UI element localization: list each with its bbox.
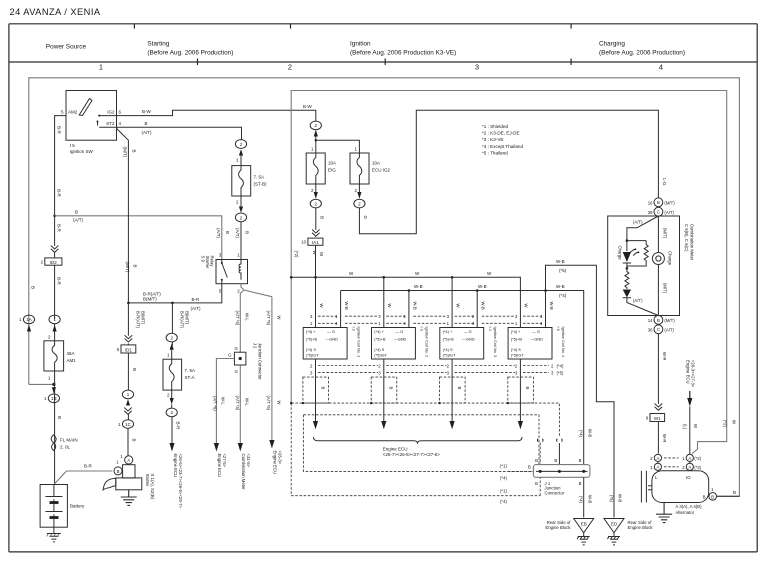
svg-text:Relay: Relay	[210, 256, 215, 268]
svg-text:24 AVANZA / XENIA: 24 AVANZA / XENIA	[10, 7, 101, 17]
svg-text:Alternator: Alternator	[676, 510, 695, 515]
svg-text:L-G: L-G	[662, 178, 667, 186]
svg-text:1A: 1A	[26, 317, 32, 322]
svg-text:(A/T *5): (A/T *5)	[266, 396, 271, 411]
starter relay S 9	[201, 253, 248, 294]
svg-text:W-B: W-B	[478, 284, 487, 289]
svg-text:Ignition SW: Ignition SW	[70, 149, 94, 154]
fuse 10A EIG	[306, 146, 336, 193]
svg-text:I 5: I 5	[70, 143, 76, 148]
svg-text:(*3): (*3)	[694, 465, 701, 470]
svg-text:C: C	[657, 327, 660, 332]
svg-text:AM2: AM2	[68, 109, 78, 114]
svg-text:(*1): (*1)	[500, 463, 507, 468]
combination meter box	[608, 216, 680, 316]
svg-text:B: B	[528, 465, 531, 470]
svg-text:W-B: W-B	[556, 259, 565, 264]
svg-text:(A/T): (A/T)	[142, 130, 152, 135]
svg-text:W-B: W-B	[549, 302, 554, 310]
alternator body	[641, 471, 708, 503]
junction connector J1	[528, 458, 590, 496]
ignition coil I 4 No.3	[440, 327, 498, 360]
svg-text:B: B	[132, 368, 137, 371]
svg-text:I 3: I 3	[420, 327, 425, 331]
svg-text:(A/T *4): (A/T *4)	[235, 396, 240, 411]
fusible link FL MAIN 2.0L	[51, 435, 77, 451]
svg-text:Engine ECU: Engine ECU	[273, 451, 278, 475]
svg-text:ED: ED	[611, 522, 618, 527]
connector dash rows above coils	[310, 314, 543, 326]
wire B-R to Engine ECU arrow	[171, 417, 173, 444]
svg-text:— G: — G	[327, 329, 335, 334]
svg-text:W-L: W-L	[244, 398, 249, 406]
wire W-B (*5) to ED	[546, 265, 615, 517]
svg-text:39: 39	[648, 210, 653, 215]
svg-text:B-R(A/T): B-R(A/T)	[143, 291, 161, 296]
svg-text:W-B: W-B	[414, 284, 423, 289]
svg-text:1: 1	[99, 62, 103, 71]
svg-text:*4 : Except Thailand: *4 : Except Thailand	[482, 144, 523, 149]
svg-text:A: A	[688, 465, 691, 470]
svg-text:B-W: B-W	[303, 104, 313, 109]
svg-text:(L): (L)	[683, 424, 688, 430]
svg-text:(*4): (*4)	[500, 475, 507, 480]
svg-text:1C: 1C	[125, 422, 132, 427]
resistor zigzag	[627, 245, 648, 267]
wire W1 to alternator L	[657, 422, 659, 454]
svg-text:(*4): (*4)	[557, 363, 564, 368]
charge lamp LED + resistor parallel	[626, 239, 629, 242]
junction code box IA1	[301, 238, 323, 245]
svg-text:(*5): (*5)	[609, 495, 614, 502]
ignition coil I 6 No.4	[508, 327, 566, 360]
LED charge	[623, 252, 631, 262]
svg-text:B: B	[579, 458, 582, 463]
svg-text:(A/T): (A/T)	[216, 228, 221, 238]
svg-text:B: B	[225, 231, 230, 234]
svg-text:B(M/T): B(M/T)	[143, 297, 157, 302]
svg-text:Ignition Coil No. 4: Ignition Coil No. 4	[561, 327, 566, 359]
svg-text:W-B: W-B	[556, 284, 565, 289]
chevron connector above ID2	[51, 246, 59, 253]
svg-text:<31-5>: <31-5>	[246, 454, 251, 468]
svg-text:(M/T): (M/T)	[122, 147, 127, 158]
svg-text:<27-5>: <27-5>	[222, 454, 227, 468]
B terminal circle	[703, 487, 740, 500]
svg-text:ECU IG2: ECU IG2	[372, 167, 391, 172]
ignition switch I 5	[61, 91, 122, 154]
svg-text:B: B	[703, 495, 706, 500]
svg-text:(*2): (*2)	[694, 456, 701, 461]
legend note	[482, 124, 523, 155]
svg-text:EB: EB	[581, 522, 587, 527]
connector dash rows below coils	[310, 363, 564, 375]
connector 2 below ECU-IG2	[354, 184, 365, 208]
wire B (M/T) from ST2 diagonal	[117, 128, 129, 302]
brace Engine ECU	[314, 437, 523, 444]
svg-text:(A/T): (A/T)	[664, 327, 674, 332]
wire W (*2) loop around ignition section	[291, 91, 727, 454]
svg-text:— G: — G	[532, 329, 540, 334]
wire IA1 to W bus	[315, 245, 317, 277]
wire B-R battery to starter	[55, 471, 113, 484]
svg-text:2. 0L: 2. 0L	[60, 444, 71, 449]
coil + risers from W bus	[316, 277, 453, 327]
svg-text:(*5): (*5)	[559, 268, 567, 273]
IGT wires to ECU arrows	[316, 403, 521, 422]
svg-text:W1: W1	[654, 416, 661, 421]
svg-text:(*5)+B: (*5)+B	[443, 336, 455, 341]
svg-text:(M/T): (M/T)	[664, 318, 675, 323]
svg-text:S 9: S 9	[201, 256, 206, 263]
svg-text:(A/T *6): (A/T *6)	[213, 396, 218, 411]
alternator connector circles row1	[650, 454, 702, 461]
svg-text:ID1: ID1	[125, 347, 133, 352]
svg-text:Connector: Connector	[545, 490, 565, 495]
svg-text:B-R: B-R	[192, 297, 201, 302]
svg-text:B-R: B-R	[84, 463, 93, 468]
chevron above W1	[655, 404, 663, 411]
svg-text:Starting: Starting	[147, 41, 169, 48]
svg-text:—GND: —GND	[394, 336, 407, 341]
connector 36(C)(A/T)	[648, 325, 675, 334]
svg-text:EIG: EIG	[328, 167, 336, 172]
ground EB (rear side of engine block)	[545, 519, 593, 545]
svg-text:(Before Aug. 2006 Production): (Before Aug. 2006 Production)	[599, 50, 685, 57]
svg-text:(*5)+B: (*5)+B	[306, 336, 318, 341]
svg-text:B-R(A/T): B-R(A/T)	[136, 311, 141, 329]
ground starter	[121, 490, 137, 506]
connector 2 (ignition feed)	[310, 121, 321, 136]
svg-text:B: B	[319, 216, 324, 219]
fuse 10A ECU-IG2	[350, 146, 391, 193]
svg-text:B: B	[554, 458, 557, 463]
coil G risers from W-B bus	[341, 291, 546, 328]
svg-text:B: B	[525, 387, 530, 390]
node B (A/T) branch	[53, 215, 56, 218]
svg-text:A: A	[127, 458, 130, 463]
junction code box ID2	[41, 258, 62, 265]
W-B ground bus	[341, 291, 584, 465]
svg-text:Engine Block: Engine Block	[628, 525, 654, 530]
fuse 7.5A ST-B	[232, 156, 267, 207]
svg-text:(A/T *5): (A/T *5)	[266, 311, 271, 326]
svg-text:—GND: —GND	[326, 336, 339, 341]
svg-text:(*5)IGT: (*5)IGT	[443, 353, 456, 358]
svg-text:(Before Aug. 2006 Production): (Before Aug. 2006 Production)	[147, 50, 233, 57]
wire down to ID1	[127, 303, 129, 345]
inner shield dashed rect	[303, 415, 539, 472]
svg-text:B: B	[320, 387, 325, 390]
svg-text:10A: 10A	[372, 161, 380, 166]
fuse 7.5A ST-A	[163, 350, 195, 398]
svg-text:<26-5><23-7><26-5><29-7>: <26-5><23-7><26-5><29-7>	[178, 454, 183, 509]
svg-text:<26-3><27-3>: <26-3><27-3>	[690, 360, 695, 388]
svg-text:S 1(A), S2(B): S 1(A), S2(B)	[150, 474, 155, 500]
ignition coil U1 I 2 No.1	[303, 327, 361, 360]
svg-text:AM1: AM1	[67, 358, 77, 363]
svg-text:B: B	[132, 265, 137, 268]
svg-text:B(M/T): B(M/T)	[185, 311, 190, 325]
svg-text:B: B	[579, 481, 582, 486]
svg-text:B-R: B-R	[57, 189, 62, 198]
svg-text:Engine ECU: Engine ECU	[383, 446, 408, 451]
svg-text:2: 2	[288, 62, 292, 71]
svg-text:B: B	[75, 210, 78, 215]
connector 1 (starting)	[122, 390, 133, 399]
svg-text:(M/T): (M/T)	[664, 200, 675, 205]
svg-text:1B: 1B	[51, 396, 57, 401]
svg-text:Ignition Coil No. 3: Ignition Coil No. 3	[493, 327, 498, 358]
svg-text:B: B	[117, 469, 120, 474]
riser labels W / W-B above coils	[319, 302, 554, 310]
connector 39(C)(A/T)	[648, 207, 675, 216]
connector 1C	[118, 420, 133, 429]
svg-text:<26-7><26-6><27-7><27-6>: <26-7><26-6><27-7><27-6>	[383, 452, 440, 457]
svg-text:(M/T): (M/T)	[662, 228, 667, 239]
svg-text:Charge: Charge	[667, 251, 672, 266]
svg-text:W-R: W-R	[662, 352, 667, 361]
connector 16(B)(M/T)	[648, 198, 676, 207]
connector 1A	[19, 315, 34, 331]
svg-text:A 3(A), A 4(B): A 3(A), A 4(B)	[676, 504, 703, 509]
connector 2 (ST-A top)	[166, 333, 177, 349]
svg-text:Power Source: Power Source	[46, 44, 87, 51]
svg-text:IG: IG	[686, 475, 691, 480]
wire ECU-IG2 to meter feed	[359, 110, 658, 234]
arrow to Engine ECU 27-5	[214, 443, 219, 452]
svg-text:C 5(B), C 6(C): C 5(B), C 6(C)	[684, 224, 689, 252]
svg-text:B-R: B-R	[57, 224, 62, 233]
svg-text:Junction Connector: Junction Connector	[257, 343, 262, 381]
svg-text:45A: 45A	[67, 351, 75, 356]
shield box on IGT wire coil 3	[440, 377, 466, 403]
svg-text:Engine ECU: Engine ECU	[685, 360, 690, 384]
svg-text:4: 4	[659, 62, 663, 71]
svg-text:3: 3	[475, 62, 479, 71]
chevron above ID1	[125, 335, 133, 342]
svg-text:C: C	[657, 210, 660, 215]
svg-text:(A/T): (A/T)	[664, 210, 674, 215]
svg-text:W-B: W-B	[618, 494, 623, 502]
svg-text:A: A	[656, 465, 659, 470]
svg-text:*3 : K3-VE: *3 : K3-VE	[482, 137, 503, 142]
wire EIG to IA1	[315, 208, 317, 230]
svg-text:— G: — G	[395, 329, 403, 334]
svg-text:7. 5A: 7. 5A	[254, 175, 265, 180]
M/T gauge branch	[657, 216, 659, 316]
series resistor	[625, 268, 629, 289]
wires into alternator terminals	[658, 462, 690, 471]
svg-text:7. 5A: 7. 5A	[185, 368, 196, 373]
svg-text:B: B	[657, 318, 660, 323]
svg-text:B: B	[57, 416, 62, 419]
fuse AM1 45A	[44, 335, 76, 381]
battery	[40, 485, 85, 528]
svg-text:B: B	[244, 231, 249, 234]
svg-text:10A: 10A	[328, 161, 336, 166]
svg-text:(*5)IGT: (*5)IGT	[306, 353, 319, 358]
svg-text:B: B	[131, 150, 136, 153]
labels (*1)(*4) near J1	[500, 463, 533, 504]
svg-text:36: 36	[648, 327, 653, 332]
wire relay pin5 to B-R(A/T)/B(M/T) junction	[128, 284, 221, 303]
svg-text:(*5)+B: (*5)+B	[374, 336, 386, 341]
svg-text:(*5): (*5)	[557, 370, 564, 375]
svg-text:B-R: B-R	[57, 277, 62, 286]
svg-text:J 2: J 2	[252, 343, 257, 349]
svg-text:(*4) S: (*4) S	[374, 347, 384, 352]
svg-text:W-L: W-L	[244, 313, 249, 321]
pulley	[641, 471, 646, 503]
svg-text:Ignition Coil No. 2: Ignition Coil No. 2	[425, 327, 430, 358]
svg-text:(*5)+B: (*5)+B	[511, 336, 523, 341]
svg-text:Charge: Charge	[617, 246, 622, 261]
wire to Engine ECU 26-3 27-3 (alternator L sense)	[689, 407, 691, 455]
svg-text:*5 : Thailand: *5 : Thailand	[482, 150, 508, 155]
svg-text:B: B	[145, 121, 148, 126]
svg-text:16: 16	[648, 200, 653, 205]
svg-text:Engine ECU: Engine ECU	[173, 454, 178, 478]
svg-text:W-B: W-B	[412, 302, 417, 310]
svg-text:(Before Aug. 2006 Production K: (Before Aug. 2006 Production K3-VE)	[350, 50, 456, 57]
svg-text:B: B	[711, 494, 714, 499]
svg-text:I 2: I 2	[351, 327, 356, 331]
svg-text:W-L: W-L	[221, 397, 226, 405]
svg-text:(*4) +: (*4) +	[511, 329, 521, 334]
svg-text:I 6: I 6	[556, 327, 561, 331]
arrow to Engine ECU 26-3	[269, 440, 274, 449]
svg-text:—GND: —GND	[462, 336, 475, 341]
chevron above IA1	[312, 230, 320, 237]
svg-text:B(M/T): B(M/T)	[141, 311, 146, 325]
svg-text:A: A	[688, 456, 691, 461]
svg-text:*2 : K3-DE, EJ-DE: *2 : K3-DE, EJ-DE	[482, 131, 520, 136]
svg-text:B: B	[535, 481, 538, 486]
svg-text:Engine Block: Engine Block	[545, 525, 571, 530]
relay pin2 wires	[240, 284, 272, 444]
svg-text:(*2): (*2)	[294, 251, 299, 258]
svg-text:Ignition: Ignition	[350, 41, 371, 48]
svg-text:(*4): (*4)	[500, 499, 507, 504]
header number row ticks	[198, 59, 572, 66]
ground battery	[47, 527, 61, 542]
svg-text:Battery: Battery	[70, 504, 85, 509]
svg-text:<26-3>: <26-3>	[278, 451, 283, 465]
svg-text:(*5)IGT: (*5)IGT	[511, 353, 524, 358]
svg-text:ST-A: ST-A	[185, 375, 195, 380]
junction connector J2	[216, 343, 262, 444]
wire B-R from ignition SW AM2 down	[55, 116, 66, 485]
svg-text:(*4) S: (*4) S	[306, 347, 316, 352]
svg-text:Ignition Coil No. 1: Ignition Coil No. 1	[356, 327, 361, 358]
svg-text:Starter: Starter	[145, 474, 150, 487]
svg-text:(*2): (*2)	[723, 420, 728, 427]
svg-text:(*4) S: (*4) S	[511, 347, 521, 352]
diode	[623, 290, 631, 298]
svg-text:— G: — G	[464, 329, 472, 334]
connector 2 (ST-A bottom)	[166, 398, 177, 417]
svg-text:(M/T): (M/T)	[662, 283, 667, 294]
junction code box ID1	[117, 345, 136, 353]
svg-text:B: B	[657, 200, 660, 205]
wire into meter / A-T branch	[627, 216, 659, 241]
shield drain curls	[537, 439, 562, 442]
wire to relay pin1	[240, 222, 242, 260]
svg-text:Combination Meter: Combination Meter	[689, 224, 694, 261]
connector 2 (ST-B top)	[235, 140, 246, 156]
svg-text:IA1: IA1	[312, 240, 319, 245]
svg-text:(*4) +: (*4) +	[443, 329, 453, 334]
wire B-W from IG2	[117, 110, 316, 121]
svg-text:(ST-B): (ST-B)	[254, 181, 268, 186]
wire W-R meter to W1	[657, 334, 659, 404]
svg-text:(*5)IGT: (*5)IGT	[374, 353, 387, 358]
svg-text:(A/T): (A/T)	[191, 306, 201, 311]
svg-text:B: B	[31, 286, 36, 289]
svg-text:B: B	[132, 439, 137, 442]
arrow to Combination Meter 31-5	[238, 443, 243, 452]
svg-text:W-B: W-B	[481, 302, 486, 310]
svg-text:—GND: —GND	[530, 336, 543, 341]
svg-text:B: B	[389, 387, 394, 390]
svg-text:Starter: Starter	[205, 256, 210, 269]
svg-text:10: 10	[301, 240, 306, 245]
svg-text:14: 14	[648, 318, 653, 323]
svg-text:B: B	[457, 387, 462, 390]
svg-text:(*4): (*4)	[559, 293, 567, 298]
W-B wire J1 to EB ground	[583, 477, 585, 517]
arrows between 1 and 1C	[126, 399, 130, 405]
svg-text:B: B	[733, 490, 736, 495]
node junction at 128.4,302.9	[127, 302, 130, 305]
svg-text:Combination Meter: Combination Meter	[241, 454, 246, 491]
svg-text:(A/T): (A/T)	[633, 298, 643, 303]
connector 2 below EIG	[310, 184, 321, 208]
svg-text:W-B: W-B	[587, 495, 592, 503]
svg-text:W-R: W-R	[662, 434, 667, 443]
fuse 7.5A ST-A chain	[171, 303, 173, 359]
svg-text:B-R: B-R	[175, 422, 180, 431]
svg-text:Charging: Charging	[599, 41, 625, 48]
svg-text:A: A	[656, 456, 659, 461]
svg-text:(*1): (*1)	[500, 489, 507, 494]
wire to fuses	[316, 137, 360, 154]
ground ED (rear side of engine block)	[604, 519, 653, 545]
svg-text:(*4): (*4)	[579, 430, 584, 437]
wire B (A/T) from ST2	[117, 127, 242, 140]
svg-text:(A/T *4): (A/T *4)	[235, 311, 240, 326]
outer shield dashed rect	[291, 403, 559, 496]
shield box on IGT wire coil 4	[508, 377, 534, 403]
starter S 1(A), S2(B)	[103, 454, 155, 500]
svg-text:(A/T): (A/T)	[633, 220, 643, 225]
svg-text:(M/T): (M/T)	[125, 262, 130, 273]
svg-text:B-W: B-W	[142, 109, 152, 114]
svg-text:(*4) S: (*4) S	[443, 347, 453, 352]
svg-text:B-R(A/T): B-R(A/T)	[180, 311, 185, 329]
wire B charging loop (alternator B to battery, top frame line)	[29, 78, 740, 497]
connector 14(B)(M/T)	[648, 316, 676, 325]
svg-text:(A/T): (A/T)	[235, 228, 240, 238]
connector 2 (ST-B bottom)	[235, 207, 246, 222]
wire ID1 to connector 1	[127, 353, 129, 390]
wire 1C to starter A	[127, 414, 129, 456]
alternator connector circles row2	[650, 463, 702, 470]
svg-text:(*4): (*4)	[579, 496, 584, 503]
svg-text:*1 : Shielded: *1 : Shielded	[482, 124, 508, 129]
ignition coil I 3 No.2	[372, 327, 430, 360]
